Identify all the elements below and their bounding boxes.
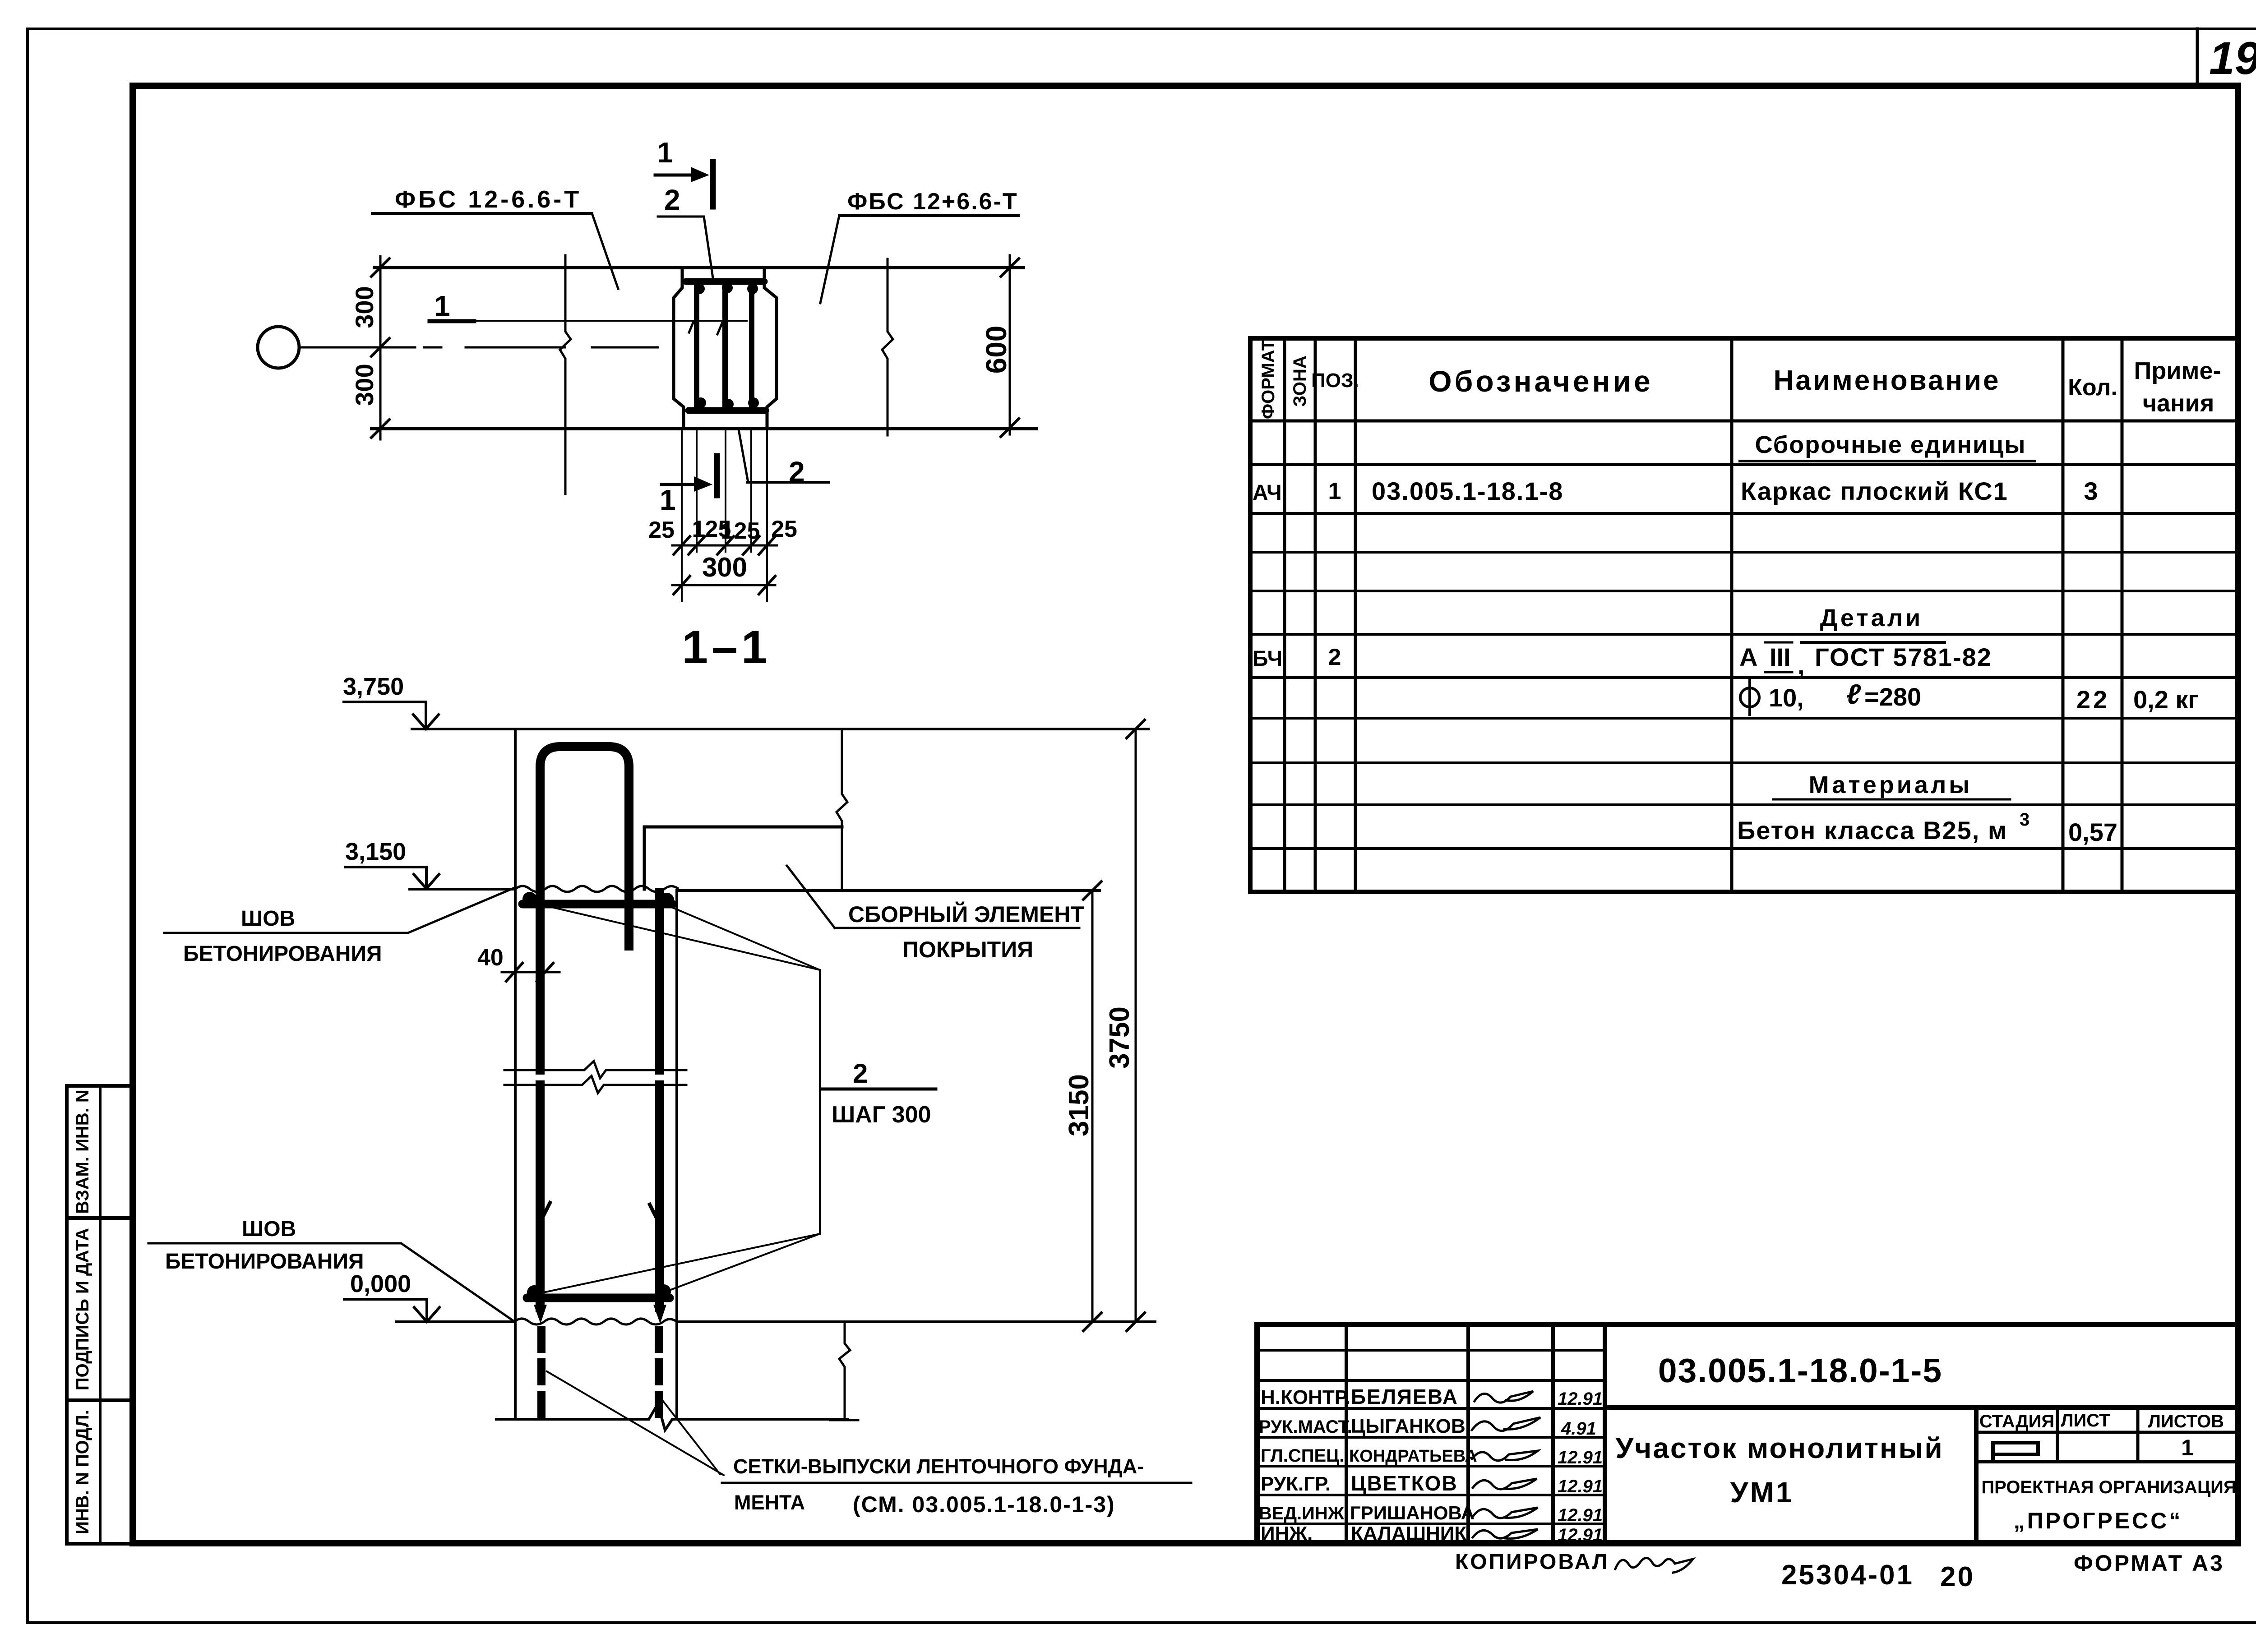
monolithic joint outline (plan octagon): [674, 268, 777, 429]
svg-text:3,150: 3,150: [345, 838, 406, 865]
leader from label 2 to top bar: [658, 217, 713, 281]
leaders to dashed bars: [547, 1371, 724, 1475]
small hooks on trace line: [689, 322, 693, 332]
svg-text:(СМ. 03.005.1-18.0-1-3): (СМ. 03.005.1-18.0-1-3): [853, 1492, 1115, 1517]
underline of right ФБС label: [839, 214, 1018, 217]
extension lines below joint: [681, 431, 683, 601]
svg-text:1: 1: [2181, 1435, 2194, 1460]
svg-text:ВЗАМ. ИНВ. N: ВЗАМ. ИНВ. N: [73, 1089, 92, 1214]
specification table outer border: [1250, 338, 2238, 892]
left margin stamp box: ВЗАМ. ИНВ. №: [67, 1086, 133, 1218]
svg-text:0,57: 0,57: [2068, 818, 2117, 846]
document number cell: [1605, 1405, 2238, 1410]
bar end dots (plan): [694, 283, 705, 294]
svg-text:3750: 3750: [1104, 1006, 1135, 1069]
dimension line 3150: [1091, 891, 1094, 1322]
svg-text:III: III: [1770, 643, 1791, 671]
svg-text:АЧ: АЧ: [1253, 481, 1282, 505]
svg-text:Кол.: Кол.: [2068, 374, 2117, 401]
svg-text:ЦЫГАНКОВ: ЦЫГАНКОВ: [1351, 1415, 1465, 1437]
leader of right ФБС label: [820, 216, 839, 303]
svg-text:Каркас плоский КС1: Каркас плоский КС1: [1741, 477, 2008, 505]
top transverse bar pos.2 (plan): [686, 278, 764, 285]
svg-text:Бетон класса В25, м: Бетон класса В25, м: [1737, 816, 2007, 844]
svg-text:12.91: 12.91: [1558, 1525, 1603, 1545]
svg-text:ШОВ: ШОВ: [242, 1217, 296, 1241]
top mesh bar pos.2: [522, 900, 672, 909]
стадия grid: [1976, 1431, 2238, 1434]
right dimension line 600: [1009, 255, 1011, 434]
column line after ФОРМАТ: [1283, 338, 1286, 892]
svg-text:19: 19: [2209, 32, 2256, 84]
стадия section divider: [1974, 1407, 1979, 1544]
right break line with zigzag: [882, 259, 893, 435]
bottom mesh bar pos.2: [527, 1294, 670, 1302]
svg-text:БЕТОНИРОВАНИЯ: БЕТОНИРОВАНИЯ: [183, 942, 382, 966]
stage flag symbol: [1993, 1443, 2038, 1460]
precast slab top edge: [644, 826, 842, 829]
title block outer border: [1257, 1324, 2238, 1544]
svg-text:СБОРНЫЙ ЭЛЕМЕНТ: СБОРНЫЙ ЭЛЕМЕНТ: [848, 901, 1084, 927]
left margin stamp box: ПОДПИСЬ И ДАТА: [67, 1218, 133, 1400]
svg-text:ℓ: ℓ: [1846, 679, 1861, 710]
svg-text:40: 40: [477, 945, 504, 971]
svg-text:ФБС 12+6.6-Т: ФБС 12+6.6-Т: [847, 189, 1018, 215]
bar bottom arrow tips: [534, 1305, 547, 1324]
svg-text:ПОДПИСЬ И ДАТА: ПОДПИСЬ И ДАТА: [73, 1228, 92, 1390]
svg-text:1: 1: [434, 290, 450, 322]
left break line with zigzag: [560, 255, 571, 494]
svg-text:КОНДРАТЬЕВА: КОНДРАТЬЕВА: [1349, 1447, 1477, 1466]
divider before document number section: [1603, 1324, 1607, 1544]
svg-text:РУК.МАСТ.: РУК.МАСТ.: [1259, 1417, 1352, 1437]
svg-text:Н.КОНТР.: Н.КОНТР.: [1261, 1386, 1350, 1408]
svg-text:20: 20: [1940, 1561, 1975, 1592]
svg-text:12.91: 12.91: [1558, 1448, 1603, 1467]
sheet number box divider: [2196, 29, 2199, 86]
column line after Обозначение: [1730, 338, 1734, 892]
svg-text:12.91: 12.91: [1558, 1505, 1603, 1525]
axis marker circle: [258, 327, 299, 368]
svg-text:КАЛАШНИК: КАЛАШНИК: [1351, 1523, 1466, 1545]
svg-text:03.005.1-18.1-8: 03.005.1-18.1-8: [1372, 477, 1563, 505]
svg-text:КОПИРОВАЛ: КОПИРОВАЛ: [1455, 1550, 1609, 1574]
svg-text:12.91: 12.91: [1558, 1477, 1603, 1496]
svg-text:МЕНТА: МЕНТА: [734, 1491, 805, 1514]
hairpin bar (П) of cage: [540, 747, 629, 1070]
svg-text:ЛИСТОВ: ЛИСТОВ: [2148, 1412, 2224, 1431]
foundation mesh outlet (dashed bar left): [537, 1330, 546, 1417]
svg-text:Приме-: Приме-: [2134, 357, 2221, 384]
svg-text:0,2 кг: 0,2 кг: [2133, 685, 2199, 714]
svg-text:25304-01: 25304-01: [1781, 1560, 1914, 1591]
lap splice ticks on bars: [541, 1203, 550, 1222]
svg-text:03.005.1-18.0-1-5: 03.005.1-18.0-1-5: [1658, 1352, 1942, 1389]
leader of bottom label 2: [748, 481, 829, 484]
row: Ф10, l=280 | 22 | 0,2 кг: [1740, 688, 1759, 707]
svg-text:1: 1: [660, 484, 676, 516]
signature section row lines: [1257, 1349, 1605, 1352]
underline of left ФБС label: [372, 212, 592, 215]
svg-text:СЕТКИ-ВЫПУСКИ ЛЕНТОЧНОГО ФУНДА: СЕТКИ-ВЫПУСКИ ЛЕНТОЧНОГО ФУНДА-: [733, 1455, 1144, 1478]
callout 2 / ШАГ 300: [819, 970, 821, 1234]
column line after Наименование: [2062, 338, 2065, 892]
row lines: [1250, 463, 2238, 466]
foundation mesh outlet (dashed bar right): [655, 1330, 663, 1417]
svg-text:ИНВ. N ПОДЛ.: ИНВ. N ПОДЛ.: [73, 1410, 92, 1534]
svg-text:ЦВЕТКОВ: ЦВЕТКОВ: [1351, 1472, 1458, 1495]
копировал signature: [1615, 1558, 1693, 1573]
right vertical bar of cage: [655, 892, 664, 1070]
column line after ПОЗ: [1354, 338, 1357, 892]
svg-text:1: 1: [1328, 478, 1341, 504]
leader of left ФБС label: [592, 213, 618, 289]
svg-text:1: 1: [657, 136, 673, 169]
svg-text:БЕЛЯЕВА: БЕЛЯЕВА: [1351, 1385, 1458, 1408]
svg-text:ЗОНА: ЗОНА: [1290, 355, 1310, 406]
concreting joint wavy line (top): [515, 886, 678, 892]
concreting joint wavy line (bottom): [514, 1319, 677, 1324]
svg-text:12.91: 12.91: [1558, 1389, 1603, 1409]
svg-text:,: ,: [1798, 651, 1805, 679]
svg-text:2: 2: [1328, 644, 1341, 670]
svg-text:3150: 3150: [1063, 1074, 1095, 1136]
svg-text:Наименование: Наименование: [1774, 365, 2001, 396]
svg-text:ГОСТ 5781-82: ГОСТ 5781-82: [1815, 643, 1992, 671]
svg-text:25: 25: [771, 516, 797, 542]
svg-text:4.91: 4.91: [1561, 1419, 1596, 1439]
svg-text:Материалы: Материалы: [1809, 771, 1973, 798]
level line +3,150 (left part): [410, 888, 515, 891]
svg-text:ФБС 12-6.6-Т: ФБС 12-6.6-Т: [395, 186, 582, 213]
svg-text:ПОЗ.: ПОЗ.: [1311, 369, 1359, 392]
slab bottom / level 3,150 line to dim: [677, 889, 1100, 892]
svg-text:ФОРМАТ А3: ФОРМАТ А3: [2074, 1550, 2224, 1576]
svg-text:ШАГ 300: ШАГ 300: [832, 1102, 931, 1128]
flat cage KC1 bars (plan, 3 verticals): [694, 284, 699, 409]
svg-text:22: 22: [2076, 685, 2110, 714]
svg-text:300: 300: [702, 552, 747, 582]
foundation break line: [496, 1404, 847, 1430]
section mark top: arrow: [655, 174, 697, 177]
left margin stamp box: ИНВ. № ПОДЛ.: [67, 1400, 133, 1544]
svg-text:Участок монолитный: Участок монолитный: [1615, 1432, 1943, 1464]
svg-text:300: 300: [350, 364, 379, 406]
svg-text:ПРОЕКТНАЯ ОРГАНИЗАЦИЯ: ПРОЕКТНАЯ ОРГАНИЗАЦИЯ: [1981, 1477, 2236, 1497]
section mark bottom: arrow: [661, 483, 700, 486]
svg-text:БЕТОНИРОВАНИЯ: БЕТОНИРОВАНИЯ: [165, 1250, 364, 1274]
level line +3,750: [412, 728, 1148, 730]
level line 0,000 (right part): [677, 1320, 1155, 1323]
section mark bottom: cut bar: [714, 456, 720, 495]
svg-text:ПОКРЫТИЯ: ПОКРЫТИЯ: [902, 937, 1033, 962]
slab right break line with zigzag: [837, 729, 847, 890]
left dimension line 300/300: [379, 256, 382, 439]
svg-text:РУК.ГР.: РУК.ГР.: [1261, 1473, 1331, 1495]
tick at foundation break line end: [830, 1419, 858, 1421]
svg-text:3,750: 3,750: [343, 673, 404, 700]
svg-text:2: 2: [853, 1058, 868, 1089]
level line 0,000 (left part): [396, 1320, 514, 1323]
header bottom line: [1250, 420, 2238, 423]
column line after ЗОНА: [1314, 338, 1317, 892]
axis line from circle: [299, 346, 415, 349]
svg-text:ФОРМАТ: ФОРМАТ: [1258, 340, 1278, 419]
wall left edge: [514, 729, 517, 1419]
svg-text:10,: 10,: [1769, 683, 1804, 712]
svg-text:СТАДИЯ: СТАДИЯ: [1979, 1412, 2054, 1431]
svg-text:=280: =280: [1864, 683, 1921, 711]
wall bottom edge (plan): [372, 427, 1036, 430]
svg-text:ЛИСТ: ЛИСТ: [2061, 1411, 2110, 1431]
svg-text:УМ1: УМ1: [1730, 1476, 1794, 1509]
svg-text:2: 2: [664, 184, 680, 216]
wall break lines (double, with spikes): [504, 1061, 686, 1078]
svg-text:0,000: 0,000: [350, 1270, 411, 1297]
signature section column lines: [1345, 1324, 1348, 1544]
dimension line 300 (bottom): [672, 584, 775, 586]
svg-text:чания: чания: [2143, 390, 2214, 417]
svg-text:1–1: 1–1: [682, 621, 771, 674]
svg-text:600: 600: [980, 326, 1012, 374]
svg-text:Сборочные единицы: Сборочные единицы: [1755, 431, 2026, 458]
right lower break line with zigzag: [839, 1322, 850, 1419]
svg-text:125: 125: [721, 518, 760, 544]
svg-text:ГРИШАНОВА: ГРИШАНОВА: [1350, 1502, 1475, 1523]
svg-text:3: 3: [2084, 477, 2098, 505]
svg-text:Детали: Детали: [1820, 605, 1923, 632]
svg-text:А: А: [1739, 643, 1757, 671]
svg-text:Обозначение: Обозначение: [1428, 365, 1653, 398]
precast slab left edge: [643, 827, 646, 889]
svg-text:ИНЖ.: ИНЖ.: [1261, 1523, 1313, 1545]
svg-text:ГЛ.СПЕЦ.: ГЛ.СПЕЦ.: [1261, 1446, 1345, 1466]
wall top edge (plan): [374, 266, 1023, 269]
svg-text:„ПРОГРЕСС“: „ПРОГРЕСС“: [2014, 1508, 2183, 1533]
svg-text:3: 3: [2020, 810, 2029, 830]
axis center line dashes: [424, 346, 441, 349]
section mark top: cut bar: [710, 162, 716, 207]
bottom transverse bar pos.2 (plan): [689, 407, 766, 414]
dimension line 3750: [1135, 729, 1137, 1322]
svg-text:300: 300: [350, 286, 379, 328]
svg-text:БЧ: БЧ: [1253, 647, 1282, 671]
svg-text:25: 25: [648, 517, 675, 543]
dimension line 25/125/125/25: [672, 545, 777, 547]
wall right edge below slab: [675, 891, 678, 1419]
stamp boxes inner divider: [99, 1086, 102, 1544]
column line after Кол: [2121, 338, 2124, 892]
svg-text:ШОВ: ШОВ: [241, 907, 295, 931]
svg-text:ВЕД.ИНЖ.: ВЕД.ИНЖ.: [1259, 1504, 1349, 1523]
